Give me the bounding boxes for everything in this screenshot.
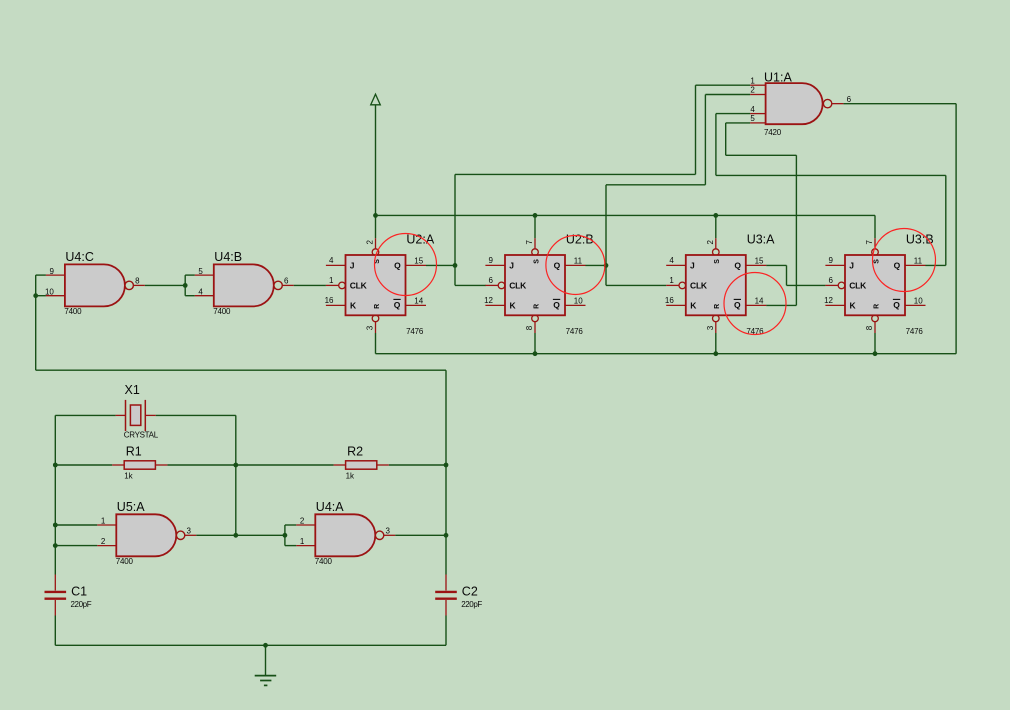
svg-text:U3:B: U3:B bbox=[906, 232, 934, 246]
svg-text:7476: 7476 bbox=[906, 327, 924, 336]
svg-text:3: 3 bbox=[706, 325, 715, 330]
svg-text:CLK: CLK bbox=[849, 281, 867, 291]
wire clear bus (U1 output to bottom pins) bbox=[376, 104, 957, 356]
resistor R2 (1k) bbox=[334, 445, 389, 481]
power arrow (preset net marker) bbox=[371, 94, 381, 215]
svg-text:U5:A: U5:A bbox=[117, 500, 145, 514]
svg-text:9: 9 bbox=[829, 256, 834, 265]
wire U3:B Q to U1 pin4 bbox=[716, 114, 946, 266]
wire U2:B Q to U1 pin2 and U3:A CLK bbox=[585, 95, 750, 286]
highlight circle on U3:A Qbar pin bbox=[724, 273, 786, 335]
svg-text:Q: Q bbox=[734, 261, 741, 271]
svg-text:1k: 1k bbox=[346, 471, 355, 480]
svg-text:1: 1 bbox=[300, 537, 305, 546]
jk flip-flop U3:A (7476) bbox=[665, 232, 775, 336]
svg-text:12: 12 bbox=[824, 296, 833, 305]
svg-text:CLK: CLK bbox=[350, 281, 368, 291]
svg-text:2: 2 bbox=[101, 537, 106, 546]
svg-text:3: 3 bbox=[187, 526, 192, 535]
svg-text:R: R bbox=[873, 304, 880, 309]
svg-text:7476: 7476 bbox=[406, 327, 424, 336]
svg-text:3: 3 bbox=[386, 526, 391, 535]
svg-text:Q: Q bbox=[893, 300, 900, 310]
svg-text:16: 16 bbox=[665, 296, 674, 305]
jk flip-flop U3:B (7476) bbox=[824, 232, 934, 336]
svg-text:8: 8 bbox=[865, 325, 874, 330]
svg-text:7476: 7476 bbox=[566, 327, 584, 336]
svg-text:220pF: 220pF bbox=[71, 600, 92, 609]
svg-text:15: 15 bbox=[414, 257, 423, 266]
svg-text:K: K bbox=[510, 301, 517, 311]
svg-text:11: 11 bbox=[914, 257, 923, 266]
svg-text:R1: R1 bbox=[126, 445, 142, 459]
capacitor C1 (220pF) bbox=[45, 575, 92, 616]
highlight circle on U2:A Q pin bbox=[375, 234, 437, 296]
svg-text:2: 2 bbox=[706, 240, 715, 245]
svg-text:C1: C1 bbox=[71, 585, 87, 599]
svg-text:K: K bbox=[850, 301, 857, 311]
svg-text:11: 11 bbox=[574, 257, 583, 266]
svg-text:R: R bbox=[714, 304, 721, 309]
svg-text:1k: 1k bbox=[124, 471, 133, 480]
wire mid column (X1/R1/R2/U5:A output) bbox=[156, 415, 334, 537]
svg-text:16: 16 bbox=[325, 296, 334, 305]
svg-text:6: 6 bbox=[284, 276, 289, 285]
svg-text:X1: X1 bbox=[125, 383, 140, 397]
svg-text:S: S bbox=[873, 259, 880, 264]
svg-text:7420: 7420 bbox=[764, 128, 782, 137]
svg-text:CLK: CLK bbox=[509, 281, 527, 291]
nand gate U4:B (7400) bbox=[195, 250, 294, 316]
svg-text:J: J bbox=[350, 260, 355, 270]
svg-text:Q: Q bbox=[894, 261, 901, 271]
svg-text:220pF: 220pF bbox=[461, 600, 482, 609]
svg-text:U4:A: U4:A bbox=[316, 500, 344, 514]
wire left column (X1/R1/U5:A inputs/C1) bbox=[53, 415, 116, 574]
svg-text:2: 2 bbox=[366, 240, 375, 245]
svg-text:7: 7 bbox=[865, 240, 874, 245]
svg-text:6: 6 bbox=[489, 276, 494, 285]
svg-text:S: S bbox=[533, 259, 540, 264]
svg-text:K: K bbox=[690, 301, 697, 311]
svg-text:Q: Q bbox=[394, 300, 401, 310]
svg-text:4: 4 bbox=[329, 256, 334, 265]
svg-text:4: 4 bbox=[750, 105, 755, 114]
jk flip-flop U2:B (7476) bbox=[484, 232, 594, 336]
svg-text:6: 6 bbox=[829, 276, 834, 285]
capacitor C2 (220pF) bbox=[435, 575, 482, 616]
svg-text:CLK: CLK bbox=[690, 281, 708, 291]
svg-text:10: 10 bbox=[574, 297, 583, 306]
svg-text:C2: C2 bbox=[462, 585, 478, 599]
svg-text:K: K bbox=[350, 301, 357, 311]
wire preset bus (top pins of flip-flops) bbox=[373, 213, 875, 238]
svg-text:12: 12 bbox=[484, 296, 493, 305]
jk flip-flop U2:A (7476) bbox=[325, 232, 435, 336]
svg-text:5: 5 bbox=[198, 267, 203, 276]
wire ground bus bbox=[55, 616, 446, 648]
svg-text:1: 1 bbox=[669, 276, 674, 285]
svg-text:1: 1 bbox=[101, 517, 106, 526]
svg-text:14: 14 bbox=[755, 297, 764, 306]
wire oscillator feedback to U4:C inputs bbox=[33, 275, 446, 574]
svg-text:S: S bbox=[714, 259, 721, 264]
svg-text:14: 14 bbox=[414, 297, 423, 306]
wire U4:B output to U2:A CLK bbox=[294, 284, 326, 286]
svg-text:4: 4 bbox=[669, 256, 674, 265]
svg-text:8: 8 bbox=[135, 276, 140, 285]
svg-text:4: 4 bbox=[198, 287, 203, 296]
svg-text:Q: Q bbox=[394, 261, 401, 271]
svg-text:10: 10 bbox=[914, 297, 923, 306]
highlight circle on U3:B Q pin bbox=[873, 229, 936, 292]
wire U3:A Qbar to U1 pin5 bbox=[726, 123, 797, 306]
svg-text:5: 5 bbox=[750, 114, 755, 123]
svg-text:7400: 7400 bbox=[116, 557, 134, 566]
svg-text:6: 6 bbox=[847, 95, 852, 104]
svg-text:J: J bbox=[690, 260, 695, 270]
nand gate U4:A (7400) bbox=[296, 500, 395, 566]
svg-text:U4:C: U4:C bbox=[65, 250, 93, 264]
svg-text:8: 8 bbox=[525, 325, 534, 330]
wire U4:C output to U4:B inputs bbox=[145, 275, 195, 296]
svg-text:J: J bbox=[509, 260, 514, 270]
svg-text:2: 2 bbox=[300, 517, 305, 526]
svg-text:1: 1 bbox=[750, 76, 755, 85]
svg-text:R: R bbox=[533, 304, 540, 309]
wire U5:A output to U4:A inputs bbox=[196, 525, 296, 546]
svg-text:7400: 7400 bbox=[64, 307, 82, 316]
nand gate U1:A (7420) bbox=[750, 71, 851, 138]
resistor R1 (1k) bbox=[112, 445, 167, 481]
svg-text:2: 2 bbox=[750, 86, 755, 95]
svg-text:7400: 7400 bbox=[315, 557, 333, 566]
svg-text:U1:A: U1:A bbox=[764, 71, 792, 85]
nand gate U5:A (7400) bbox=[97, 500, 196, 566]
svg-text:J: J bbox=[849, 260, 854, 270]
svg-text:15: 15 bbox=[755, 257, 764, 266]
svg-text:R: R bbox=[374, 304, 381, 309]
svg-text:Q: Q bbox=[734, 300, 741, 310]
svg-text:9: 9 bbox=[49, 267, 54, 276]
nand gate U4:C (7400) bbox=[45, 250, 145, 316]
svg-text:R2: R2 bbox=[347, 445, 363, 459]
svg-text:CRYSTAL: CRYSTAL bbox=[124, 431, 159, 440]
svg-text:3: 3 bbox=[366, 325, 375, 330]
svg-text:7: 7 bbox=[525, 240, 534, 245]
ground symbol bbox=[255, 645, 277, 685]
svg-text:U4:B: U4:B bbox=[214, 250, 242, 264]
wire U4:A output / right column (R2/C2) bbox=[389, 463, 449, 538]
svg-text:Q: Q bbox=[553, 300, 560, 310]
wire U2:A Q to U1 pin1 and U2:B CLK bbox=[426, 85, 750, 285]
highlight circle on U2:B Q pin bbox=[546, 236, 605, 295]
svg-text:7400: 7400 bbox=[213, 307, 231, 316]
svg-text:9: 9 bbox=[489, 256, 494, 265]
wire U3:A Q to U3:B CLK bbox=[766, 265, 825, 285]
crystal X1 bbox=[116, 383, 159, 440]
svg-text:U3:A: U3:A bbox=[747, 232, 775, 246]
svg-text:Q: Q bbox=[554, 261, 561, 271]
svg-text:10: 10 bbox=[45, 287, 54, 296]
svg-text:1: 1 bbox=[329, 276, 334, 285]
